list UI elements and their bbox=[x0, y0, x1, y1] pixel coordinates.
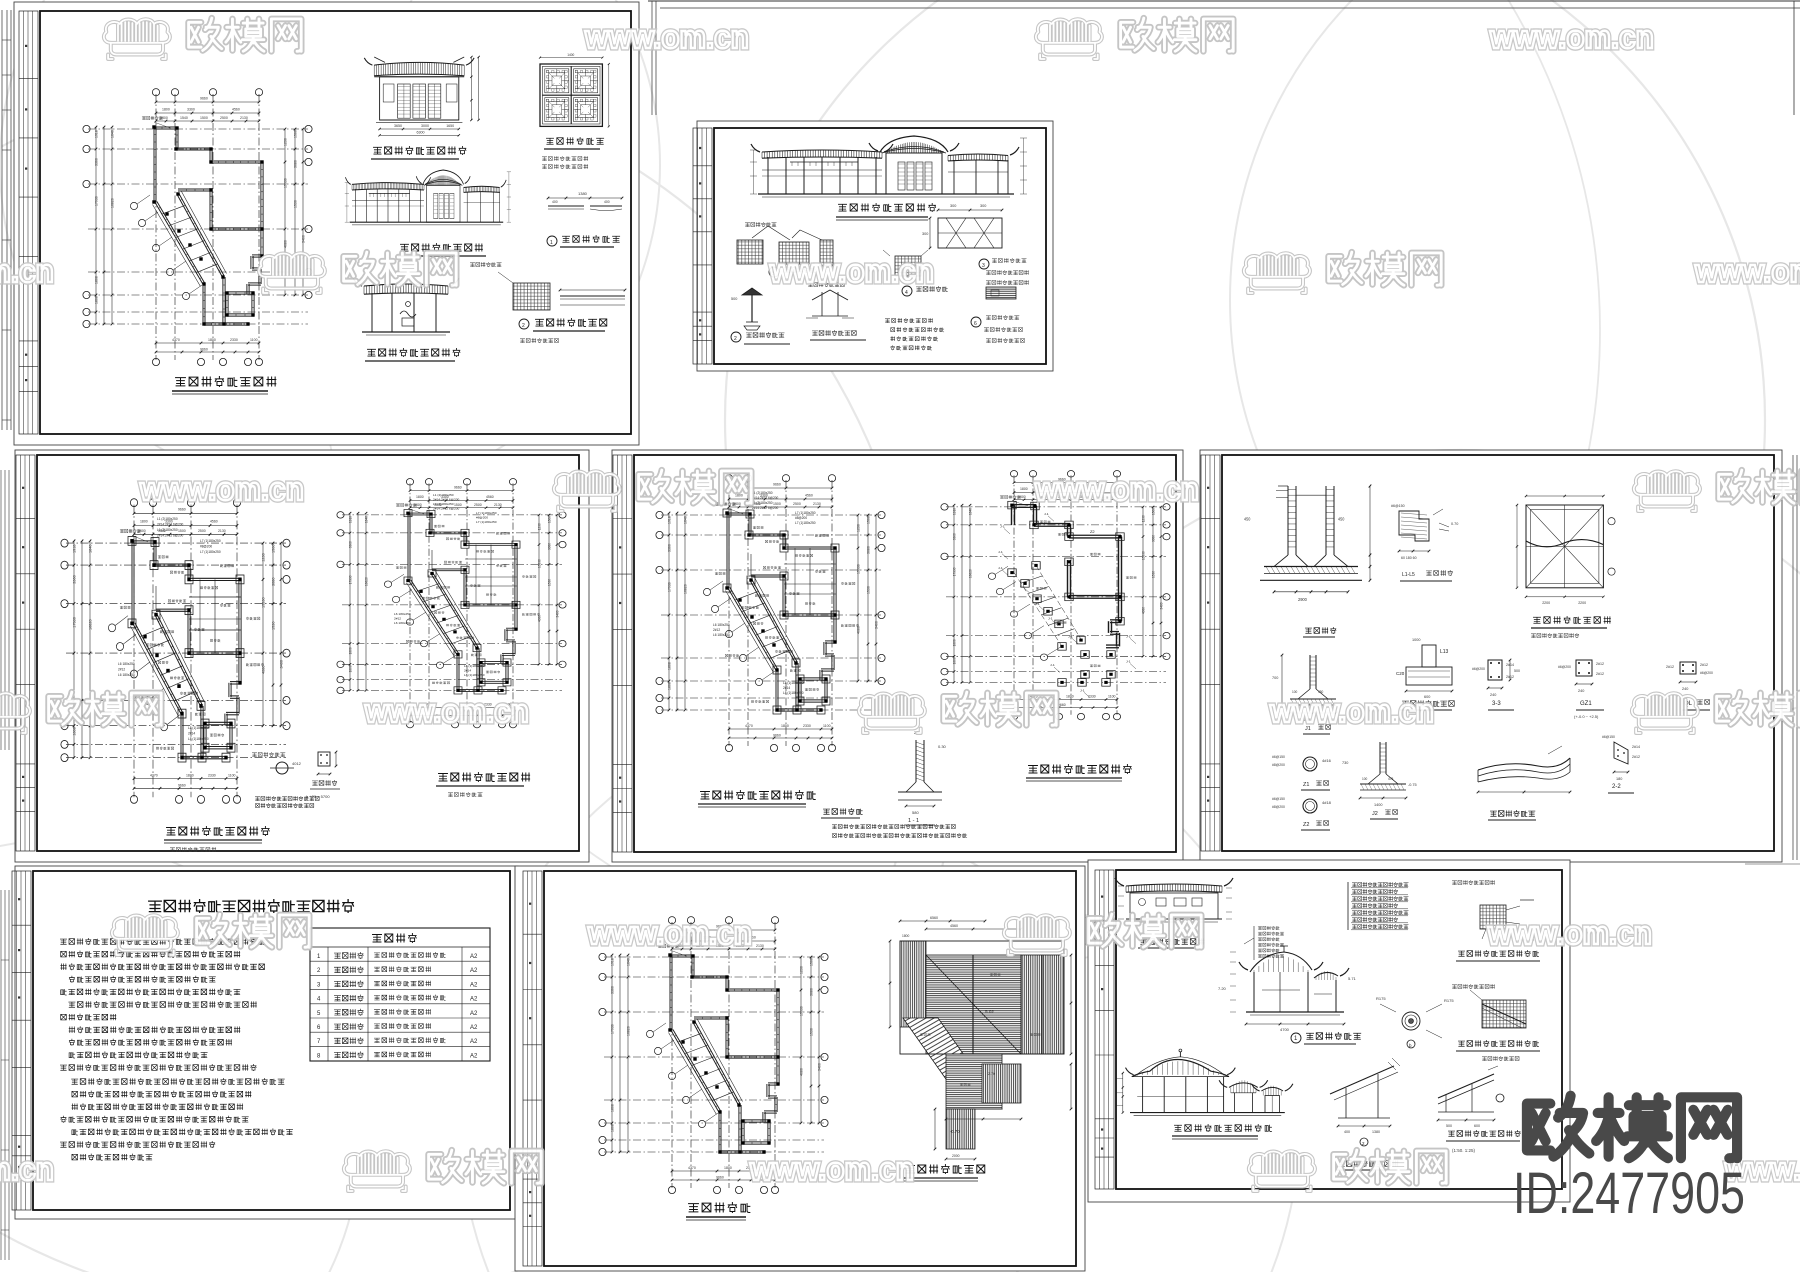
svg-text:J-1: J-1 bbox=[1126, 635, 1131, 639]
svg-text:6300: 6300 bbox=[417, 131, 425, 135]
svg-text:#8@200: #8@200 bbox=[200, 544, 212, 548]
svg-text:2#14:2#12 6@200: 2#14:2#12 6@200 bbox=[752, 496, 779, 500]
svg-text:www.om.cn: www.om.cn bbox=[1487, 915, 1652, 951]
sheet 8: drawing frame bbox=[1116, 870, 1562, 1189]
sheet 1: drawing frame bbox=[40, 11, 631, 434]
sheet 2: eave detail group bbox=[737, 240, 763, 264]
sheet 8: 1-1 section bbox=[1218, 946, 1357, 1032]
watermark www.om.cn at 1035,466 bbox=[1034, 471, 1199, 507]
svg-text:2#14:2#12 6@200: 2#14:2#12 6@200 bbox=[433, 507, 460, 511]
svg-text:2#12: 2#12 bbox=[1596, 672, 1604, 676]
sheet 3: title strip bbox=[16, 455, 35, 851]
svg-text:450: 450 bbox=[1244, 516, 1251, 521]
svg-text:1918: 1918 bbox=[73, 544, 77, 553]
svg-text:1540: 1540 bbox=[180, 116, 188, 120]
svg-text:2000: 2000 bbox=[952, 1154, 960, 1158]
svg-text:A2: A2 bbox=[470, 1053, 478, 1059]
sheet 1: hall elevation E1 bbox=[364, 56, 479, 137]
sheet 7: title strip bbox=[523, 871, 542, 1266]
sheet 2: detail 3 leader bbox=[979, 259, 989, 269]
svg-text:15330: 15330 bbox=[800, 1006, 804, 1016]
svg-text:1640: 1640 bbox=[684, 516, 688, 524]
svg-text:J-1: J-1 bbox=[998, 566, 1003, 570]
sheet 1: E3 title bbox=[367, 349, 375, 356]
svg-text:16820: 16820 bbox=[627, 1026, 631, 1036]
svg-text:580: 580 bbox=[912, 810, 919, 815]
sheet 1: curved pavilion elevation E2 bbox=[345, 170, 511, 225]
svg-text:1230: 1230 bbox=[262, 553, 266, 562]
svg-text:1800: 1800 bbox=[1066, 695, 1074, 699]
svg-text:www.om.cn: www.om.cn bbox=[0, 253, 54, 289]
svg-text:L6 180x250: L6 180x250 bbox=[394, 621, 411, 625]
svg-text:4370: 4370 bbox=[150, 773, 158, 777]
svg-text:L8 (1)180x250: L8 (1)180x250 bbox=[783, 681, 804, 685]
svg-text:1800: 1800 bbox=[186, 773, 194, 777]
watermark sofa+logo at 550,466 bbox=[554, 470, 751, 511]
watermark: large circles bbox=[0, 70, 920, 1272]
svg-text:1918: 1918 bbox=[95, 130, 99, 138]
watermark sofa+logo at 1245,1146 bbox=[1249, 1150, 1446, 1191]
svg-text:1918: 1918 bbox=[668, 516, 672, 524]
svg-text:1918: 1918 bbox=[611, 958, 615, 966]
svg-text:2#14: 2#14 bbox=[464, 669, 471, 673]
watermark www.om.cn at -110,1146 bbox=[0, 1151, 54, 1187]
svg-text:2330: 2330 bbox=[803, 724, 811, 728]
svg-text:#6@200: #6@200 bbox=[1558, 665, 1571, 669]
svg-text:L1 (2)180x250: L1 (2)180x250 bbox=[157, 528, 178, 532]
svg-text:1808: 1808 bbox=[73, 727, 77, 736]
sheet 5: Z1 pile bbox=[1303, 757, 1317, 771]
sheet 8: small long elevation bbox=[1115, 878, 1233, 922]
svg-text:2500: 2500 bbox=[474, 503, 482, 507]
sheet 2: railing detail top right bbox=[938, 218, 1002, 248]
svg-text:www.om.cn: www.om.cn bbox=[1489, 19, 1654, 55]
svg-text:#6@150: #6@150 bbox=[1602, 735, 1615, 739]
svg-text:J-1: J-1 bbox=[1048, 617, 1053, 621]
svg-text:www.om.cn: www.om.cn bbox=[587, 915, 752, 951]
sheet 8: sloped joist detail bbox=[1437, 1056, 1519, 1128]
svg-text:2#12: 2#12 bbox=[1666, 665, 1674, 669]
sheet 1: porch elevation E3 bbox=[353, 278, 459, 335]
svg-text:2130: 2130 bbox=[813, 502, 821, 506]
svg-text:Z2: Z2 bbox=[1090, 530, 1095, 534]
sheet 5: drawing frame bbox=[1222, 455, 1774, 851]
svg-text:L1 (2)180x250: L1 (2)180x250 bbox=[752, 491, 773, 495]
svg-text:1400: 1400 bbox=[567, 53, 574, 57]
svg-text:4560: 4560 bbox=[950, 924, 958, 928]
svg-text:2: 2 bbox=[522, 323, 525, 329]
sheet 4: design notes bbox=[823, 809, 829, 814]
svg-text:1808: 1808 bbox=[952, 639, 956, 646]
sheet 8: spec list block bbox=[1348, 882, 1408, 930]
svg-text:1800: 1800 bbox=[414, 503, 422, 507]
svg-text:(+-0.0 ~ +2.5): (+-0.0 ~ +2.5) bbox=[1574, 714, 1599, 719]
svg-text:J-1: J-1 bbox=[1044, 512, 1049, 516]
svg-text:L7 (1)180x250: L7 (1)180x250 bbox=[795, 521, 816, 525]
watermark sofa+logo at 1240,248 bbox=[1244, 252, 1441, 293]
svg-text:1100: 1100 bbox=[250, 338, 258, 342]
svg-text:2500: 2500 bbox=[793, 502, 801, 506]
svg-text:-0.70: -0.70 bbox=[950, 1129, 960, 1134]
svg-text:1500: 1500 bbox=[272, 544, 276, 553]
svg-text:www.om.cn: www.om.cn bbox=[769, 253, 934, 289]
svg-text:9660: 9660 bbox=[773, 483, 781, 487]
svg-text:ID:2477905: ID:2477905 bbox=[1513, 1161, 1745, 1226]
svg-text:L7 (1)180x250: L7 (1)180x250 bbox=[476, 511, 497, 515]
watermark sofa+logo at 1630,466 bbox=[1634, 470, 1800, 511]
watermark sofa+logo at -40,688 bbox=[0, 692, 161, 733]
sheet 5: roof panel rebar detail bbox=[1516, 495, 1615, 605]
svg-text:15330: 15330 bbox=[284, 178, 288, 188]
svg-text:1640: 1640 bbox=[89, 544, 93, 553]
svg-text:1230: 1230 bbox=[537, 523, 541, 530]
svg-text:www.om.cn: www.om.cn bbox=[364, 693, 529, 729]
svg-text:9660: 9660 bbox=[716, 1176, 724, 1180]
svg-text:16820: 16820 bbox=[89, 619, 93, 630]
svg-text:0.30: 0.30 bbox=[938, 744, 947, 749]
svg-text:2#14:2#12 6@200: 2#14:2#12 6@200 bbox=[752, 506, 779, 510]
svg-text:2#12: 2#12 bbox=[1596, 662, 1604, 666]
svg-text:4#16: 4#16 bbox=[1322, 758, 1332, 763]
svg-text:3080: 3080 bbox=[547, 543, 551, 550]
sheet 5: GZ1 section bbox=[1558, 660, 1604, 693]
svg-text:4080: 4080 bbox=[537, 615, 541, 622]
svg-text:1500: 1500 bbox=[294, 130, 298, 138]
sheet 3: roof beam framing plan bbox=[61, 499, 290, 804]
svg-text:2#12: 2#12 bbox=[118, 668, 125, 672]
watermark www.om.cn at 1695,248 bbox=[1694, 253, 1800, 289]
svg-text:4370: 4370 bbox=[745, 724, 753, 728]
sheet 4: paper bbox=[612, 450, 1183, 862]
svg-text:#6@200: #6@200 bbox=[1700, 671, 1713, 675]
sheet 8: section left spec stack bbox=[1244, 926, 1284, 960]
sheet 3: notes bbox=[255, 797, 260, 801]
svg-text:L6 180x250: L6 180x250 bbox=[713, 623, 730, 627]
svg-text:1918: 1918 bbox=[348, 516, 352, 523]
svg-text:2#12: 2#12 bbox=[1632, 755, 1640, 759]
watermark www.om.cn at 770,248 bbox=[769, 253, 934, 289]
sheet 1: plan title bbox=[176, 378, 186, 386]
svg-text:3080: 3080 bbox=[810, 988, 814, 996]
svg-text:240: 240 bbox=[1490, 693, 1496, 697]
svg-text:1808: 1808 bbox=[611, 1124, 615, 1132]
sheet 2: small masonry detail bbox=[986, 287, 1016, 299]
svg-text:0.70: 0.70 bbox=[1451, 522, 1458, 526]
svg-text:2#14: 2#14 bbox=[783, 686, 790, 690]
svg-text:R175: R175 bbox=[1444, 998, 1454, 1003]
svg-text:1800: 1800 bbox=[208, 338, 216, 342]
svg-text:1: 1 bbox=[550, 240, 553, 246]
svg-text:4080: 4080 bbox=[1141, 607, 1145, 614]
svg-text:3360: 3360 bbox=[348, 541, 352, 548]
svg-text:2#12: 2#12 bbox=[1700, 663, 1708, 667]
sheet 3: drawing frame bbox=[37, 455, 579, 851]
svg-text:17930: 17930 bbox=[73, 617, 77, 628]
sheet 2: lamp detail bbox=[742, 288, 762, 295]
watermark sofa+logo at 1628,688 bbox=[1632, 692, 1800, 733]
svg-text:9660: 9660 bbox=[200, 97, 208, 101]
svg-text:#6@150: #6@150 bbox=[1391, 504, 1405, 508]
svg-text:400: 400 bbox=[552, 200, 558, 204]
svg-text:15330: 15330 bbox=[537, 559, 541, 568]
svg-text:www.om.cn: www.om.cn bbox=[584, 19, 749, 55]
sheet 5: title strip bbox=[1201, 455, 1220, 851]
svg-text:1 - 1: 1 - 1 bbox=[908, 818, 919, 824]
sheet 5: QL section bbox=[1666, 662, 1713, 691]
svg-text:L6 180x250: L6 180x250 bbox=[394, 612, 411, 616]
svg-text:2#14:2#12 6@200: 2#14:2#12 6@200 bbox=[157, 533, 183, 537]
svg-text:5.02: 5.02 bbox=[985, 1009, 994, 1014]
svg-text:A2: A2 bbox=[470, 997, 478, 1003]
svg-text:3000: 3000 bbox=[421, 124, 429, 128]
svg-text:1808: 1808 bbox=[668, 682, 672, 690]
svg-text:240: 240 bbox=[1682, 687, 1688, 691]
sheet 3: left plan title bbox=[167, 828, 176, 836]
svg-text:3080: 3080 bbox=[294, 160, 298, 168]
sheet 2: gate section detail bbox=[812, 290, 848, 300]
svg-text:2900: 2900 bbox=[1298, 597, 1307, 602]
svg-text:R175: R175 bbox=[1376, 996, 1386, 1001]
svg-text:1400: 1400 bbox=[1374, 803, 1382, 807]
svg-text:A2: A2 bbox=[470, 1025, 478, 1031]
svg-text:1500: 1500 bbox=[547, 516, 551, 523]
sheet 8: eave step detail 2 bbox=[1482, 1000, 1526, 1028]
watermark www.om.cn at 1490,14 bbox=[1489, 19, 1654, 55]
svg-text:J2: J2 bbox=[1372, 811, 1378, 817]
edge fragment: left strips row3 bbox=[0, 890, 2, 1260]
svg-text:L8 (1)180x250: L8 (1)180x250 bbox=[188, 737, 209, 741]
svg-text:A2: A2 bbox=[470, 1011, 478, 1017]
sheet 5: L13 detail bbox=[1396, 638, 1453, 699]
svg-text:3400: 3400 bbox=[875, 621, 879, 629]
svg-text:15330: 15330 bbox=[1141, 551, 1145, 560]
sheet 1: batten detail bbox=[548, 205, 584, 207]
svg-text:3360: 3360 bbox=[611, 986, 615, 994]
svg-text:730: 730 bbox=[1342, 761, 1348, 765]
svg-text:1800: 1800 bbox=[1020, 487, 1028, 491]
svg-text:L8 (1)180x250: L8 (1)180x250 bbox=[783, 691, 804, 695]
svg-text:J-1: J-1 bbox=[998, 550, 1003, 554]
svg-text:J-1: J-1 bbox=[1068, 635, 1073, 639]
svg-text:2#14:2#12 6@200: 2#14:2#12 6@200 bbox=[433, 498, 460, 502]
watermark www.om.cn at 750,1146 bbox=[749, 1151, 914, 1187]
sheet 7: plan title bbox=[689, 1204, 699, 1212]
sheet 8: title strip bbox=[1095, 870, 1114, 1189]
svg-text:1230: 1230 bbox=[1141, 515, 1145, 522]
svg-text:700: 700 bbox=[1272, 676, 1278, 680]
svg-text:2330: 2330 bbox=[208, 773, 216, 777]
svg-text:9660: 9660 bbox=[773, 734, 781, 738]
svg-text:6: 6 bbox=[974, 321, 977, 327]
svg-text:L6 180x250: L6 180x250 bbox=[118, 673, 135, 677]
sheet 8: hall elevation drawing bbox=[1116, 1049, 1293, 1115]
svg-text:4700: 4700 bbox=[1280, 1027, 1290, 1032]
svg-text:L6 180x250: L6 180x250 bbox=[713, 633, 730, 637]
svg-text:2#14: 2#14 bbox=[188, 731, 195, 735]
svg-text:1808: 1808 bbox=[95, 296, 99, 304]
svg-text:1800: 1800 bbox=[416, 495, 424, 499]
svg-text:1530: 1530 bbox=[810, 1028, 814, 1036]
svg-text:1800: 1800 bbox=[162, 108, 170, 112]
sheet 6: title strip bbox=[12, 871, 31, 1210]
svg-text:5.71: 5.71 bbox=[1348, 976, 1357, 981]
big site logo OMW (ou-mo-wang) bbox=[1527, 1096, 1589, 1157]
sheet 5: Z2 pile bbox=[1303, 799, 1317, 813]
svg-text:1800: 1800 bbox=[140, 520, 148, 524]
svg-text:9660: 9660 bbox=[200, 348, 208, 352]
svg-text:3: 3 bbox=[982, 263, 985, 269]
svg-text:3360: 3360 bbox=[73, 575, 77, 584]
svg-text:2130: 2130 bbox=[494, 503, 502, 507]
svg-text:240: 240 bbox=[1578, 689, 1584, 693]
svg-text:4080: 4080 bbox=[284, 240, 288, 248]
svg-text:1808: 1808 bbox=[348, 665, 352, 672]
watermark www.om.cn at 365,688 bbox=[364, 693, 529, 729]
sheet 7: drawing frame bbox=[544, 871, 1076, 1266]
edge fragment: left strips row2 bbox=[0, 470, 2, 750]
sheet 2: corner detail right bbox=[895, 256, 921, 276]
svg-text:1230: 1230 bbox=[857, 524, 861, 532]
svg-text:L1 (2)180x250: L1 (2)180x250 bbox=[157, 517, 178, 521]
svg-text:4080: 4080 bbox=[857, 626, 861, 634]
sheet 2: drawing frame bbox=[714, 128, 1046, 364]
svg-text:L7 (1)180x250: L7 (1)180x250 bbox=[200, 539, 221, 543]
sheet 6: main title bbox=[149, 901, 162, 912]
sheet 7: roof plan bbox=[889, 916, 1073, 1160]
svg-text:L8 (1)180x250: L8 (1)180x250 bbox=[464, 673, 485, 677]
svg-text:2-2: 2-2 bbox=[1612, 784, 1621, 790]
svg-text:4: 4 bbox=[905, 290, 908, 296]
sheet 6: table header bbox=[373, 935, 382, 943]
sheet 2: paper bbox=[697, 121, 1053, 371]
svg-text:4012: 4012 bbox=[292, 761, 302, 766]
svg-text:9660: 9660 bbox=[178, 508, 186, 512]
svg-text:4080: 4080 bbox=[800, 1068, 804, 1076]
watermark sofa+logo at 1000,910 bbox=[1004, 914, 1201, 955]
watermark www.om.cn at 588,910 bbox=[587, 915, 752, 951]
svg-text:1808: 1808 bbox=[348, 647, 352, 654]
watermark www.om.cn at 1488,910 bbox=[1487, 915, 1652, 951]
svg-text:L1 (2)180x250: L1 (2)180x250 bbox=[752, 501, 773, 505]
sheet 5: J1 detail bbox=[1272, 654, 1337, 722]
svg-text:1800: 1800 bbox=[781, 724, 789, 728]
svg-text:475: 475 bbox=[1388, 777, 1394, 781]
svg-text:4560: 4560 bbox=[486, 495, 494, 499]
svg-text:2200: 2200 bbox=[1578, 601, 1586, 605]
svg-text:300: 300 bbox=[922, 232, 928, 236]
svg-text:1100: 1100 bbox=[823, 724, 831, 728]
svg-text:Z1: Z1 bbox=[1303, 782, 1309, 788]
watermark www.om.cn at -110,248 bbox=[0, 253, 54, 289]
svg-text:3080: 3080 bbox=[867, 546, 871, 554]
sheet 3: paper bbox=[15, 450, 589, 862]
svg-text:2: 2 bbox=[734, 336, 737, 342]
watermark www.om.cn at 140,466 bbox=[139, 471, 304, 507]
svg-text:1380: 1380 bbox=[578, 191, 588, 196]
svg-text:6560: 6560 bbox=[930, 916, 938, 920]
svg-text:#8@200: #8@200 bbox=[795, 516, 807, 520]
sheet 5: paper bbox=[1200, 450, 1782, 862]
svg-text:2#14:2#12 6@200: 2#14:2#12 6@200 bbox=[157, 522, 183, 526]
sheet 1: E2 title bbox=[400, 244, 408, 251]
sheet 6: drawing list table bbox=[310, 928, 490, 1061]
svg-text:www.om.cn: www.om.cn bbox=[139, 471, 304, 507]
svg-text:1918: 1918 bbox=[952, 508, 956, 515]
svg-text:3650: 3650 bbox=[394, 124, 402, 128]
svg-text:1530: 1530 bbox=[1151, 571, 1155, 578]
svg-text:1380: 1380 bbox=[1372, 1130, 1380, 1134]
svg-text:Z2: Z2 bbox=[1303, 822, 1309, 828]
sheet 6: drawing frame bbox=[33, 871, 510, 1210]
sheet 2: detail 6 bbox=[971, 317, 981, 327]
sheet 6: notes paragraph lower bbox=[72, 1079, 78, 1084]
svg-text:L7 (1)180x250: L7 (1)180x250 bbox=[200, 550, 221, 554]
svg-text:A2: A2 bbox=[470, 982, 478, 988]
watermark www.om.cn at 1270,688 bbox=[1269, 693, 1434, 729]
svg-text:J-1: J-1 bbox=[1050, 663, 1055, 667]
svg-text:500: 500 bbox=[731, 297, 737, 301]
svg-text:400: 400 bbox=[1344, 1130, 1350, 1134]
svg-text:4560: 4560 bbox=[805, 494, 813, 498]
watermark sofa+logo at 340,1146 bbox=[344, 1150, 541, 1191]
edge fragment: right strips row3 top bbox=[1745, 863, 1800, 865]
sheet 3: right plan title bbox=[439, 774, 448, 782]
svg-text:1100: 1100 bbox=[1108, 695, 1116, 699]
svg-text:A2: A2 bbox=[470, 1039, 478, 1045]
svg-text:600: 600 bbox=[1474, 1124, 1480, 1128]
svg-text:2200: 2200 bbox=[1542, 601, 1550, 605]
svg-text:1500: 1500 bbox=[867, 516, 871, 524]
sheet 1: site/floor plan bbox=[83, 89, 312, 366]
svg-text:3360: 3360 bbox=[952, 533, 956, 540]
svg-text:2330: 2330 bbox=[230, 338, 238, 342]
svg-text:3080: 3080 bbox=[1151, 535, 1155, 542]
sheet 6: notes paragraph bbox=[60, 939, 66, 944]
sheet 1: paper bbox=[14, 2, 639, 445]
svg-text:1808: 1808 bbox=[95, 276, 99, 284]
svg-text:1640: 1640 bbox=[968, 508, 972, 515]
svg-text:1230: 1230 bbox=[800, 966, 804, 974]
sheet 1: E1 title bbox=[373, 147, 381, 154]
svg-text:16820: 16820 bbox=[968, 569, 972, 578]
svg-text:1640: 1640 bbox=[364, 516, 368, 523]
sheet 6: paper bbox=[15, 866, 518, 1219]
svg-text:2130: 2130 bbox=[240, 116, 248, 120]
svg-text:#6@150: #6@150 bbox=[1272, 755, 1285, 759]
svg-text:17930: 17930 bbox=[611, 1024, 615, 1034]
svg-text:#8@200: #8@200 bbox=[1272, 763, 1285, 767]
watermark sofa+logo at 855,688 bbox=[859, 692, 1056, 733]
svg-text:3400: 3400 bbox=[302, 235, 306, 243]
svg-text:7.20: 7.20 bbox=[1218, 986, 1227, 991]
svg-text:500: 500 bbox=[1446, 1124, 1452, 1128]
sheet 8: mid slope detail bbox=[1330, 1058, 1400, 1146]
edge fragment: top right neighbouring sheet bbox=[648, 0, 1800, 2]
svg-text:3400: 3400 bbox=[1159, 602, 1163, 609]
sheet 1: moon-gate grid detail bbox=[513, 283, 550, 310]
svg-text:100: 100 bbox=[1362, 777, 1368, 781]
sheet 8: circular detail b bbox=[1402, 1012, 1420, 1030]
sheet 4: title strip bbox=[613, 455, 632, 852]
svg-text:9660: 9660 bbox=[178, 784, 186, 788]
svg-text:1230: 1230 bbox=[284, 138, 288, 146]
sheet 5: J2 detail bbox=[1342, 742, 1417, 807]
svg-text:1500: 1500 bbox=[1151, 508, 1155, 515]
svg-text:L6 180x250: L6 180x250 bbox=[118, 662, 135, 666]
svg-text:L7 (1)180x250: L7 (1)180x250 bbox=[795, 511, 816, 515]
svg-text:3360: 3360 bbox=[95, 158, 99, 166]
svg-text:16820: 16820 bbox=[111, 198, 115, 208]
